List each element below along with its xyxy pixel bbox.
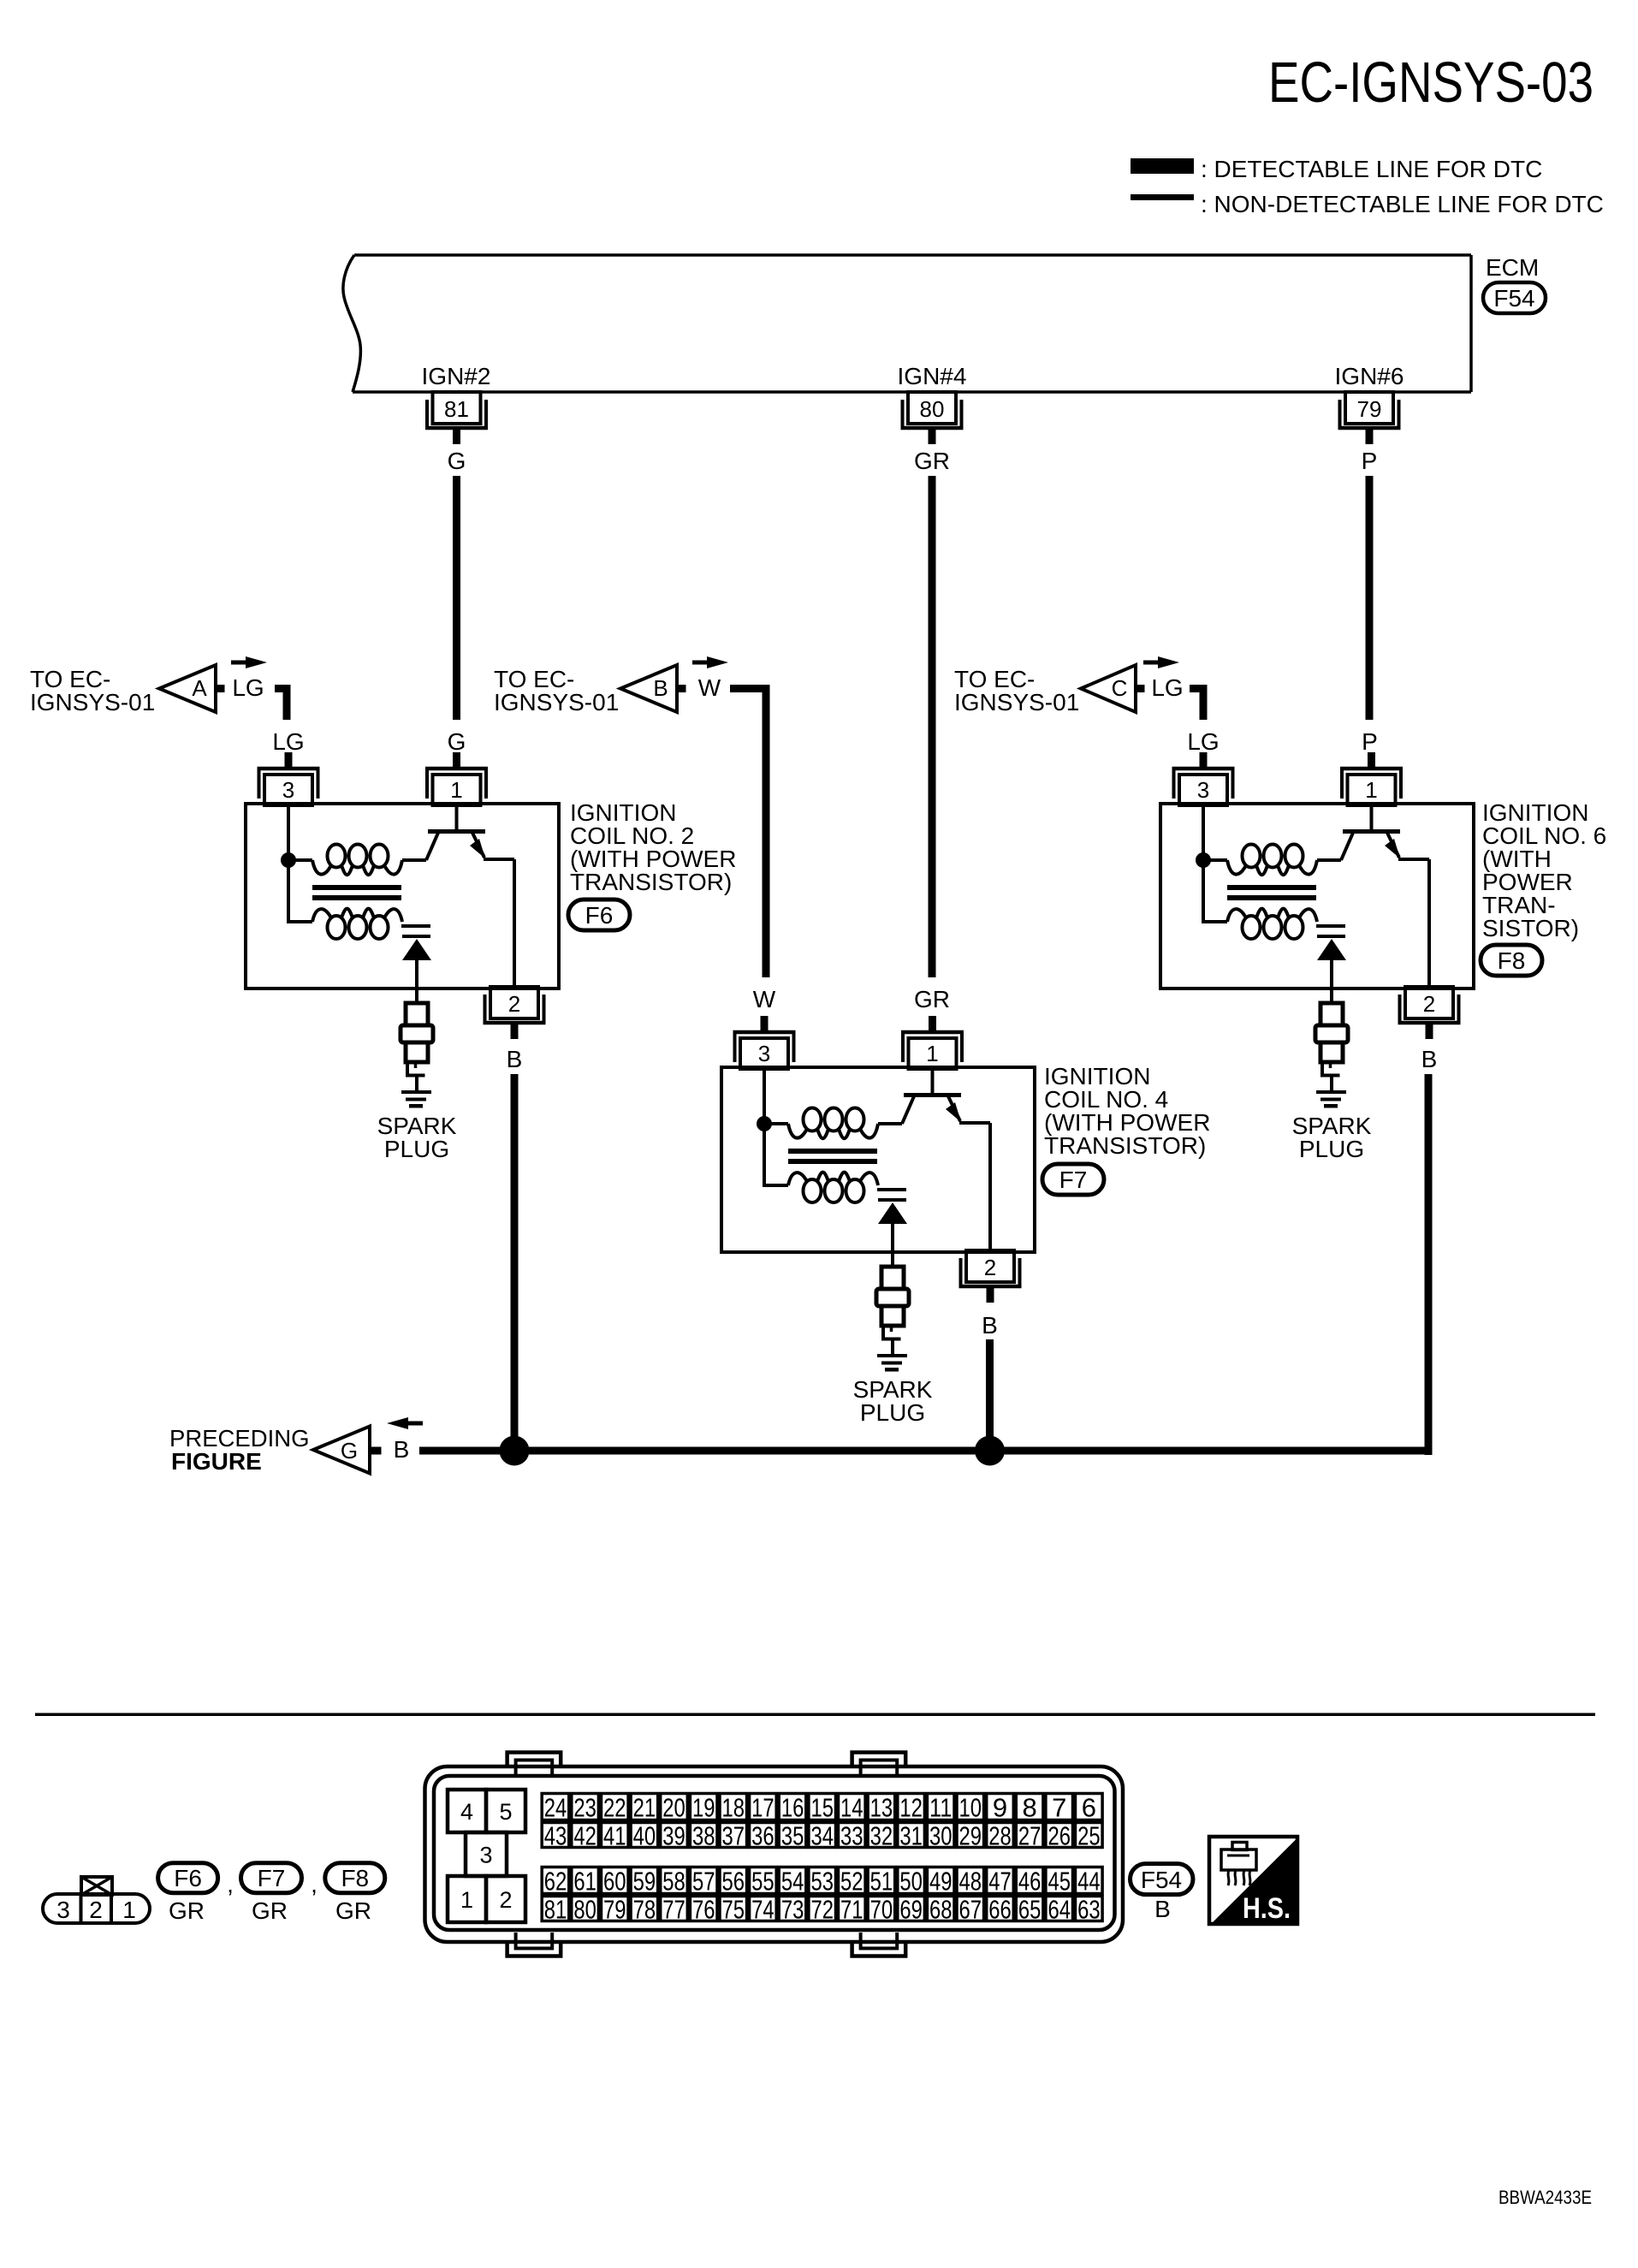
pin 3 (coil 6 pin 3 LG) connector box <box>1172 752 1235 805</box>
svg-text:54: 54 <box>781 1867 804 1897</box>
svg-text:53: 53 <box>810 1867 834 1897</box>
svg-text:PLUG: PLUG <box>384 1136 449 1162</box>
svg-text:49: 49 <box>929 1867 953 1897</box>
coil 2 wire to spark plug <box>415 960 418 1003</box>
svg-text:38: 38 <box>692 1821 715 1851</box>
ground symbol of spark plug No. 2 <box>401 1078 431 1108</box>
F54 pin 8 <box>1016 1793 1043 1823</box>
SPARK PLUG label No. 4 <box>853 1376 933 1426</box>
svg-text:F7: F7 <box>258 1865 286 1891</box>
svg-text:IGNSYS-01: IGNSYS-01 <box>494 689 619 715</box>
svg-text:50: 50 <box>899 1867 923 1897</box>
svg-text:79: 79 <box>1357 396 1382 422</box>
F54 pin 76 <box>690 1895 717 1925</box>
F54 pin 46 <box>1016 1867 1043 1897</box>
coil 4 internal wire from pin 3 <box>763 1067 766 1124</box>
wire stub triangle G <box>370 1447 382 1455</box>
svg-text:F8: F8 <box>1498 947 1526 974</box>
svg-text:69: 69 <box>899 1895 923 1925</box>
F54 pin 40 <box>631 1821 658 1851</box>
connector ID F7 oval <box>1042 1164 1104 1195</box>
svg-text:GR: GR <box>335 1897 371 1924</box>
separator line <box>35 1713 1595 1717</box>
TO EC-IGNSYS-01 label (C) <box>954 666 1079 715</box>
svg-text:IGN#4: IGN#4 <box>898 363 967 389</box>
F54 pin 53 <box>809 1867 836 1897</box>
wire stub triangle A <box>216 685 225 692</box>
F54 pin 31 <box>898 1821 925 1851</box>
coil 2 internal wire from pin 3 <box>287 804 290 860</box>
F54 pin 49 <box>927 1867 954 1897</box>
H.S. (harness side) logo <box>1209 1837 1298 1925</box>
F54 pin 17 <box>750 1793 777 1823</box>
svg-text:77: 77 <box>662 1895 685 1925</box>
F54 pin 11 <box>927 1793 954 1823</box>
F54 pin 62 <box>542 1867 569 1897</box>
F54 pin 73 <box>779 1895 806 1925</box>
F54 pin 26 <box>1046 1821 1073 1851</box>
svg-text:B: B <box>394 1436 410 1463</box>
svg-text:66: 66 <box>988 1895 1012 1925</box>
svg-text:G: G <box>448 728 466 755</box>
coil 2 wire dot to secondary <box>288 860 312 922</box>
svg-text:SISTOR): SISTOR) <box>1482 915 1579 941</box>
pin 1 (coil 4 pin 1 GR) connector box <box>901 1016 964 1069</box>
F54 pin 13 <box>868 1793 895 1823</box>
F54 pin 30 <box>927 1821 954 1851</box>
svg-text:F54: F54 <box>1493 285 1534 312</box>
svg-text:1: 1 <box>450 777 462 803</box>
svg-text:6: 6 <box>1082 1793 1096 1823</box>
svg-text:70: 70 <box>870 1895 893 1925</box>
F54 pin 74 <box>750 1895 777 1925</box>
power transistor of coil No. 4 <box>902 1067 990 1252</box>
F54 pin 64 <box>1046 1895 1073 1925</box>
F54 pin 80 <box>572 1895 599 1925</box>
svg-text:58: 58 <box>662 1867 685 1897</box>
svg-text:F7: F7 <box>1059 1167 1088 1193</box>
svg-text:28: 28 <box>988 1821 1012 1851</box>
svg-text:B: B <box>982 1312 998 1339</box>
svg-text:3: 3 <box>1197 777 1209 803</box>
coil 4 spark gap electrodes <box>877 1188 906 1202</box>
pin 2 (coil 6 pin 2 B) connector box <box>1398 987 1461 1039</box>
svg-text:GR: GR <box>252 1897 288 1924</box>
ignition coil No. 4 (F7) box <box>721 1067 1035 1252</box>
junction dot coil2-B / bus <box>500 1436 530 1466</box>
svg-text:EC-IGNSYS-03: EC-IGNSYS-03 <box>1268 50 1593 115</box>
F54 pin 7 <box>1046 1793 1073 1823</box>
svg-text:GR: GR <box>169 1897 205 1924</box>
connector tab bottom left <box>507 1940 561 1956</box>
ECM module box <box>343 255 1471 392</box>
legend non-detectable line sample <box>1131 194 1194 200</box>
pin 81 (IGN#2) connector box <box>425 392 488 444</box>
svg-text:2: 2 <box>1423 991 1435 1017</box>
svg-text:2: 2 <box>984 1255 996 1280</box>
connector ID F6 oval <box>568 899 630 930</box>
svg-text:79: 79 <box>603 1895 626 1925</box>
F54 pin 56 <box>720 1867 747 1897</box>
svg-text:F8: F8 <box>341 1865 369 1891</box>
svg-text:81: 81 <box>444 396 469 422</box>
ground symbol of spark plug No. 6 <box>1316 1078 1346 1108</box>
svg-text:3: 3 <box>56 1897 70 1923</box>
spark plug of cylinder No. 2 <box>401 1003 433 1076</box>
coil 2 secondary winding <box>312 909 402 939</box>
svg-text:3: 3 <box>479 1843 492 1868</box>
svg-text:43: 43 <box>544 1821 567 1851</box>
F54 pin 69 <box>898 1895 925 1925</box>
svg-text:TRANSISTOR): TRANSISTOR) <box>570 869 732 895</box>
F54 pin 18 <box>720 1793 747 1823</box>
spark plug of cylinder No. 6 <box>1315 1003 1348 1076</box>
coil 4 secondary winding <box>788 1173 878 1202</box>
F54 pin 23 <box>572 1793 599 1823</box>
svg-text:17: 17 <box>751 1793 774 1823</box>
ignition coil No. 2 (F6) box <box>246 804 559 989</box>
F54 pin 78 <box>631 1895 658 1925</box>
svg-text:GR: GR <box>914 986 950 1012</box>
signal direction arrow <box>387 1417 423 1429</box>
F54 pin 37 <box>720 1821 747 1851</box>
svg-text:19: 19 <box>692 1793 715 1823</box>
svg-text:BBWA2433E: BBWA2433E <box>1499 2187 1592 2208</box>
svg-text:63: 63 <box>1077 1895 1101 1925</box>
svg-text:71: 71 <box>840 1895 864 1925</box>
off-page connector triangle G <box>313 1427 370 1474</box>
svg-text:1: 1 <box>460 1887 473 1913</box>
F54 pin 19 <box>690 1793 717 1823</box>
F54 pin 43 <box>542 1821 569 1851</box>
svg-text:15: 15 <box>810 1793 834 1823</box>
coil 6 secondary winding <box>1227 909 1317 939</box>
coil 4 wire primary to transistor base <box>878 1122 902 1125</box>
F54 pin 45 <box>1046 1867 1073 1897</box>
coil 6 wire dot to primary <box>1203 858 1227 862</box>
F54 pin 12 <box>898 1793 925 1823</box>
F54 pin 75 <box>720 1895 747 1925</box>
svg-text:3: 3 <box>282 777 294 803</box>
svg-text:41: 41 <box>603 1821 626 1851</box>
F54 pin 54 <box>779 1867 806 1897</box>
svg-text:21: 21 <box>633 1793 656 1823</box>
svg-text:29: 29 <box>959 1821 982 1851</box>
svg-text:TRANSISTOR): TRANSISTOR) <box>1044 1132 1206 1159</box>
coil 6 internal junction dot <box>1196 852 1211 868</box>
svg-text:65: 65 <box>1018 1895 1042 1925</box>
svg-text:68: 68 <box>929 1895 953 1925</box>
svg-text:GR: GR <box>914 448 950 474</box>
svg-text:F6: F6 <box>174 1865 202 1891</box>
F54 pin 50 <box>898 1867 925 1897</box>
SPARK PLUG label No. 6 <box>1292 1113 1372 1162</box>
ignition coil No. 6 label <box>1482 799 1606 941</box>
F54 pin 6 <box>1076 1793 1103 1823</box>
svg-text:B: B <box>507 1046 523 1072</box>
svg-text:16: 16 <box>781 1793 804 1823</box>
ignition coil No. 2 label <box>570 799 736 895</box>
wire GR from ECM pin 80 to coil No.4 pin 1 <box>929 476 936 977</box>
F54 pin 28 <box>987 1821 1014 1851</box>
svg-text:IGNSYS-01: IGNSYS-01 <box>954 689 1079 715</box>
svg-text:10: 10 <box>959 1793 982 1823</box>
coil 2 wire primary to transistor base <box>402 858 426 862</box>
coil 6 core <box>1227 885 1316 900</box>
svg-text:PLUG: PLUG <box>1299 1136 1364 1162</box>
F54 cavity 1 <box>448 1876 486 1922</box>
F54 pin 44 <box>1076 1867 1103 1897</box>
F54 pin 35 <box>779 1821 806 1851</box>
ECM connector face F54 outline <box>425 1766 1124 1942</box>
svg-text:8: 8 <box>1022 1793 1036 1823</box>
svg-text:1: 1 <box>926 1041 938 1066</box>
coil 2 discharge arrow <box>402 939 431 960</box>
F54 pin 61 <box>572 1867 599 1897</box>
svg-text:27: 27 <box>1018 1821 1042 1851</box>
power transistor of coil No. 6 <box>1341 804 1429 989</box>
svg-text:LG: LG <box>232 674 264 701</box>
svg-text:: DETECTABLE LINE FOR DTC: : DETECTABLE LINE FOR DTC <box>1201 156 1542 182</box>
F54 pin 32 <box>868 1821 895 1851</box>
svg-text:1: 1 <box>1365 777 1377 803</box>
F54 pin 34 <box>809 1821 836 1851</box>
svg-text:76: 76 <box>692 1895 715 1925</box>
F54 pin 10 <box>957 1793 984 1823</box>
F54 pin 24 <box>542 1793 569 1823</box>
F54 pin 38 <box>690 1821 717 1851</box>
F54 pin 81 <box>542 1895 569 1925</box>
connector ID F6 oval <box>158 1863 218 1893</box>
F54 pin 59 <box>631 1867 658 1897</box>
svg-text:80: 80 <box>573 1895 596 1925</box>
pin 1 (coil 2 pin 1 G) connector box <box>425 752 488 805</box>
wire stub triangle B <box>677 685 686 692</box>
F54 cavity 2 <box>486 1876 525 1922</box>
coil 2 primary winding <box>312 845 402 876</box>
svg-text:P: P <box>1362 728 1378 755</box>
svg-text:20: 20 <box>662 1793 685 1823</box>
svg-text:47: 47 <box>988 1867 1012 1897</box>
svg-text:57: 57 <box>692 1867 715 1897</box>
svg-text:4: 4 <box>460 1799 473 1825</box>
coil 6 spark gap electrodes <box>1316 924 1345 938</box>
svg-text:62: 62 <box>544 1867 567 1897</box>
F54 pin 52 <box>839 1867 866 1897</box>
F54 pin 71 <box>839 1895 866 1925</box>
svg-text:B: B <box>653 675 668 701</box>
svg-text:W: W <box>698 674 721 701</box>
F54 pin 29 <box>957 1821 984 1851</box>
svg-text:2: 2 <box>89 1897 103 1923</box>
svg-text:42: 42 <box>573 1821 596 1851</box>
coil 6 wire dot to secondary <box>1203 860 1227 922</box>
svg-text:46: 46 <box>1018 1867 1042 1897</box>
junction dot coil4-B / bus <box>975 1436 1005 1466</box>
pin 2 (coil 4 pin 2 B) connector box <box>959 1250 1022 1303</box>
svg-text:LG: LG <box>1151 674 1183 701</box>
F54 pin 47 <box>987 1867 1014 1897</box>
F54 pin 63 <box>1076 1895 1103 1925</box>
svg-text:56: 56 <box>722 1867 745 1897</box>
svg-text:24: 24 <box>544 1793 567 1823</box>
coil 2 spark gap electrodes <box>401 924 430 938</box>
svg-text:F54: F54 <box>1141 1867 1182 1893</box>
svg-text:80: 80 <box>920 396 945 422</box>
svg-text:75: 75 <box>722 1895 745 1925</box>
pin 3 (coil 4 pin 3 W) connector box <box>733 1016 796 1069</box>
svg-text:36: 36 <box>751 1821 774 1851</box>
coil 6 internal wire from pin 3 <box>1202 804 1205 860</box>
svg-text:2: 2 <box>499 1887 512 1913</box>
F54 pin 65 <box>1016 1895 1043 1925</box>
svg-text:11: 11 <box>929 1793 953 1823</box>
svg-text:55: 55 <box>751 1867 774 1897</box>
pin 1 (coil 6 pin 1 P) connector box <box>1340 752 1403 805</box>
svg-text:FIGURE: FIGURE <box>171 1448 262 1475</box>
svg-text:B: B <box>1421 1046 1438 1072</box>
wire LG from triangle C to coil No.6 pin 3 <box>1190 689 1203 721</box>
connector tab top left <box>507 1753 561 1769</box>
F54 pin 77 <box>661 1895 688 1925</box>
TO EC-IGNSYS-01 label (B) <box>494 666 619 715</box>
svg-text:18: 18 <box>722 1793 745 1823</box>
connector tab bottom right <box>852 1940 906 1956</box>
svg-text:30: 30 <box>929 1821 953 1851</box>
F54 pin 20 <box>661 1793 688 1823</box>
coil 2 core <box>312 885 401 900</box>
F54 pin 60 <box>602 1867 629 1897</box>
wire P from ECM pin 79 to coil No.6 pin 1 <box>1366 476 1374 720</box>
svg-text:64: 64 <box>1047 1895 1071 1925</box>
signal direction arrow <box>231 656 267 668</box>
pin 3 (coil 2 pin 3 LG) connector box <box>258 752 320 805</box>
coil 6 primary winding <box>1227 845 1317 876</box>
F54 pin 15 <box>809 1793 836 1823</box>
F54 pin 48 <box>957 1867 984 1897</box>
F54 pin 79 <box>602 1895 629 1925</box>
F54 pin 55 <box>750 1867 777 1897</box>
F54 pin 21 <box>631 1793 658 1823</box>
F54 pin 67 <box>957 1895 984 1925</box>
svg-text:73: 73 <box>781 1895 804 1925</box>
coil 4 wire dot to primary <box>764 1122 788 1125</box>
off-page connector triangle C <box>1081 665 1136 712</box>
legend detectable line sample <box>1131 158 1194 174</box>
F54 pin 42 <box>572 1821 599 1851</box>
coil 4 discharge arrow <box>878 1202 907 1224</box>
svg-text:3: 3 <box>758 1041 770 1066</box>
svg-text:1: 1 <box>122 1897 136 1923</box>
wire G from ECM pin 81 to coil No.2 pin 1 <box>453 476 460 720</box>
F54 pin 70 <box>868 1895 895 1925</box>
svg-text:32: 32 <box>870 1821 893 1851</box>
F54 pin 27 <box>1016 1821 1043 1851</box>
svg-text:PLUG: PLUG <box>860 1399 925 1426</box>
coil 2 internal junction dot <box>281 852 296 868</box>
svg-text:IGN#2: IGN#2 <box>422 363 491 389</box>
coil 4 core <box>788 1149 877 1164</box>
svg-text:,: , <box>311 1871 318 1897</box>
off-page connector triangle A <box>159 665 216 712</box>
svg-text:33: 33 <box>840 1821 864 1851</box>
F54 pin 57 <box>690 1867 717 1897</box>
svg-text:F6: F6 <box>585 902 614 929</box>
svg-text:13: 13 <box>870 1793 893 1823</box>
F54 pin 39 <box>661 1821 688 1851</box>
svg-text:2: 2 <box>508 991 520 1017</box>
svg-text:37: 37 <box>722 1821 745 1851</box>
svg-text:H.S.: H.S. <box>1243 1892 1291 1925</box>
coil 2 wire dot to primary <box>288 858 312 862</box>
svg-text:72: 72 <box>810 1895 834 1925</box>
ignition coil No. 6 (F8) box <box>1160 804 1474 989</box>
connector ID F8 oval <box>1481 945 1542 976</box>
connector ID F8 oval <box>325 1863 385 1893</box>
off-page connector triangle B <box>620 665 677 712</box>
spark plug of cylinder No. 4 <box>876 1267 909 1339</box>
F54 pin 41 <box>602 1821 629 1851</box>
svg-text:67: 67 <box>959 1895 982 1925</box>
F54 pin 72 <box>809 1895 836 1925</box>
coil 4 primary winding <box>788 1108 878 1139</box>
svg-text:51: 51 <box>870 1867 893 1897</box>
wire LG from triangle A to coil No.2 pin 3 <box>275 689 287 721</box>
svg-text:78: 78 <box>633 1895 656 1925</box>
F54 pin 58 <box>661 1867 688 1897</box>
connector ID F54 oval (ECM) <box>1483 282 1546 313</box>
connector tab top right <box>852 1753 906 1769</box>
svg-text:ECM: ECM <box>1486 254 1539 281</box>
svg-text:45: 45 <box>1047 1867 1071 1897</box>
svg-text:40: 40 <box>633 1821 656 1851</box>
svg-text:9: 9 <box>993 1793 1007 1823</box>
F54 pin 14 <box>839 1793 866 1823</box>
pin 80 (IGN#4) connector box <box>901 392 964 444</box>
svg-text:23: 23 <box>573 1793 596 1823</box>
svg-text:LG: LG <box>272 728 304 755</box>
svg-text:: NON-DETECTABLE LINE FOR DTC: : NON-DETECTABLE LINE FOR DTC <box>1201 191 1604 217</box>
svg-text:G: G <box>448 448 466 474</box>
svg-text:81: 81 <box>544 1895 567 1925</box>
F54 pin 22 <box>602 1793 629 1823</box>
svg-text:52: 52 <box>840 1867 864 1897</box>
wire stub triangle C <box>1136 685 1145 692</box>
svg-text:B: B <box>1154 1896 1171 1922</box>
svg-text:22: 22 <box>603 1793 626 1823</box>
svg-text:74: 74 <box>751 1895 774 1925</box>
F54 cavity 4 <box>448 1790 486 1832</box>
svg-text:12: 12 <box>899 1793 923 1823</box>
svg-text:60: 60 <box>603 1867 626 1897</box>
power transistor of coil No. 2 <box>426 804 514 989</box>
svg-text:LG: LG <box>1187 728 1219 755</box>
coil connector face F6/F7/F8 (3-2-1) <box>43 1877 150 1923</box>
svg-text:61: 61 <box>573 1867 596 1897</box>
F54 pin 33 <box>839 1821 866 1851</box>
coil 4 wire dot to secondary <box>764 1124 788 1185</box>
svg-text:IGNSYS-01: IGNSYS-01 <box>30 689 155 715</box>
F54 pin 66 <box>987 1895 1014 1925</box>
svg-text:14: 14 <box>840 1793 864 1823</box>
PRECEDING FIGURE label <box>169 1425 310 1475</box>
svg-text:39: 39 <box>662 1821 685 1851</box>
svg-text:59: 59 <box>633 1867 656 1897</box>
svg-text:C: C <box>1112 675 1128 701</box>
svg-text:P: P <box>1362 448 1378 474</box>
svg-text:44: 44 <box>1077 1867 1101 1897</box>
svg-text:G: G <box>341 1438 358 1464</box>
